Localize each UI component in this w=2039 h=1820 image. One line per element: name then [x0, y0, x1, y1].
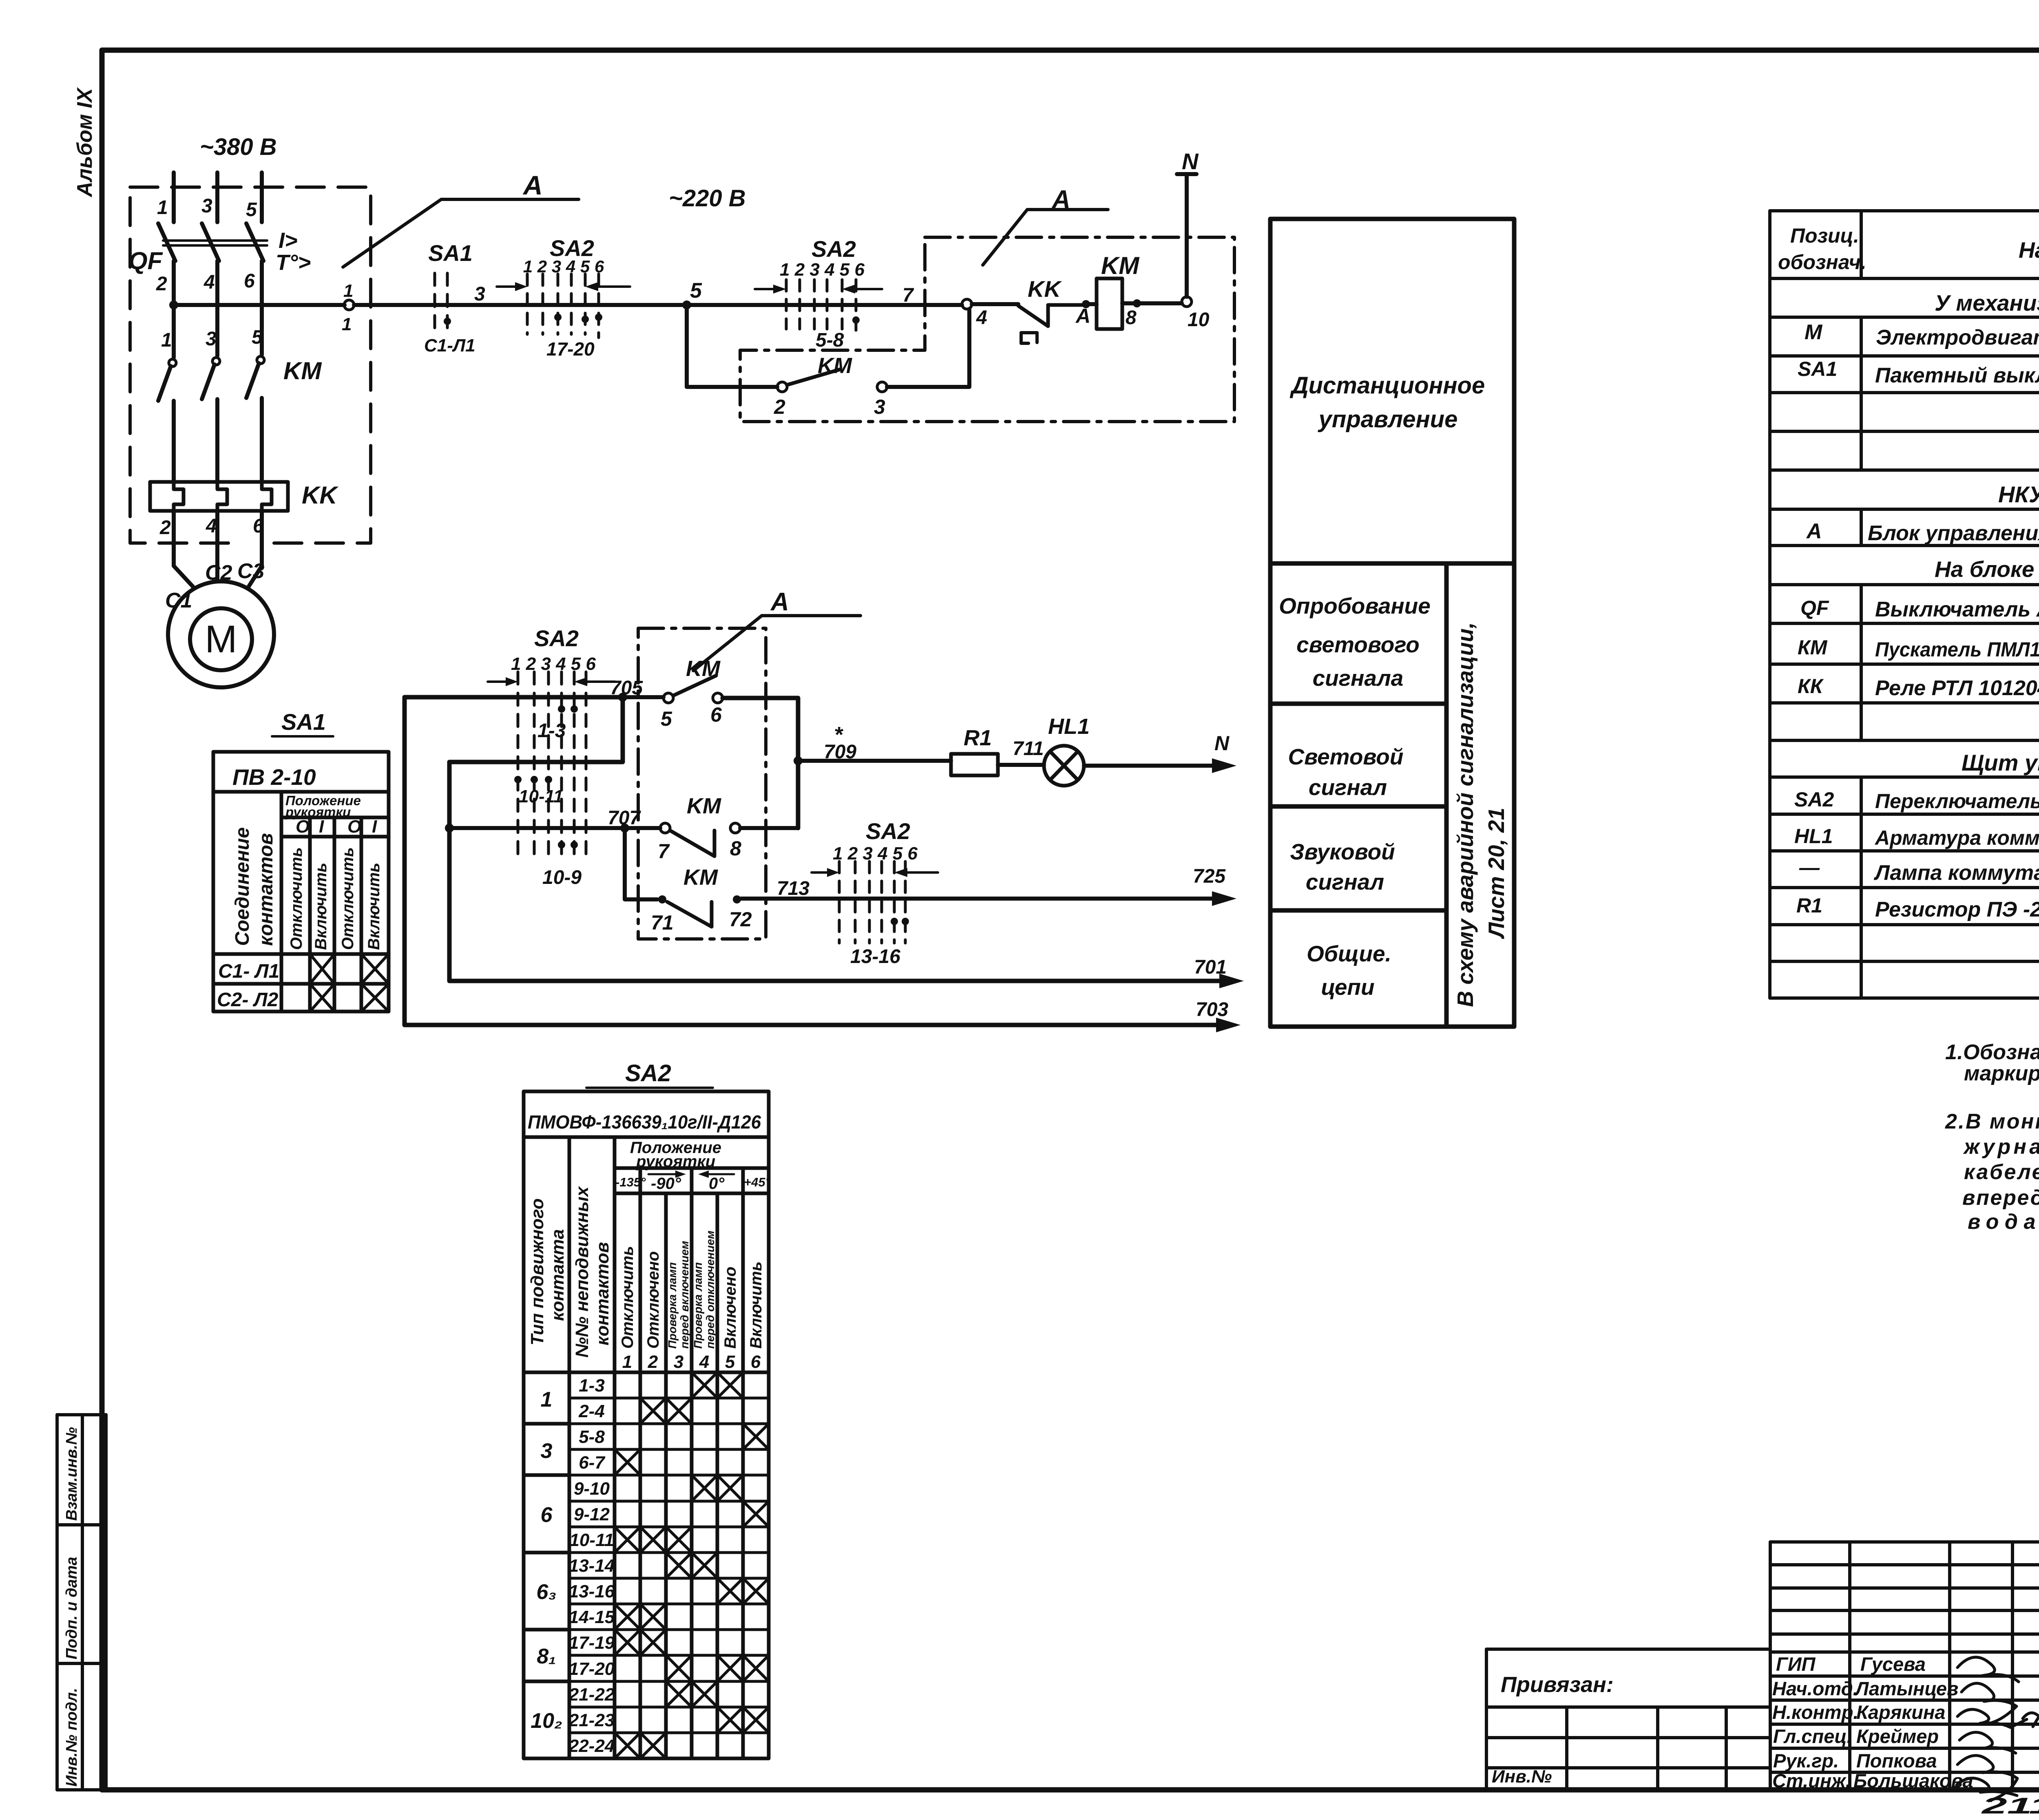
moving contact dots lines 4,5 lower [558, 841, 565, 848]
svg-text:Наименование: Наименование [2019, 237, 2039, 263]
switch SA2 bank (17-20) on feed line [527, 274, 599, 338]
wire KM aux branch down [687, 305, 777, 387]
wire pole3 QF to KM [260, 261, 264, 355]
svg-text:5: 5 [661, 707, 672, 730]
svg-text:4: 4 [203, 272, 215, 293]
svg-text:Проверка ламп: Проверка ламп [692, 1262, 704, 1349]
svg-text:1-3: 1-3 [579, 1376, 605, 1396]
svg-text:T°>: T°> [276, 250, 311, 275]
pointer line to block A (starter) [983, 210, 1108, 265]
svg-text:3: 3 [874, 395, 885, 418]
svg-text:SA2: SA2 [534, 625, 579, 651]
svg-text:N: N [1214, 732, 1230, 755]
svg-text:Электродвигатель 4А100S2: Электродвигатель 4А100S2 [1876, 326, 2039, 349]
wire N riser [1177, 174, 1196, 297]
moving contact dots lines 4,5 upper [558, 705, 565, 713]
svg-text:10: 10 [1188, 309, 1210, 331]
motor M inner circle [190, 608, 252, 670]
svg-text:SA2: SA2 [625, 1060, 671, 1087]
svg-text:HL1: HL1 [1794, 825, 1833, 848]
title block signature table [1770, 1542, 2039, 1790]
svg-text:6: 6 [244, 270, 255, 292]
table SA1 X marks [310, 954, 389, 1012]
wire supply phase L2 [215, 172, 219, 222]
svg-text:C2- Л2: C2- Л2 [217, 989, 279, 1011]
svg-text:контакта: контакта [548, 1229, 568, 1321]
wire 703 arrow [1216, 1018, 1241, 1032]
wire SA1 to SA2 [473, 303, 687, 307]
svg-text:Инв.№ подл.: Инв.№ подл. [63, 1688, 80, 1787]
svg-text:сигнал: сигнал [1306, 869, 1384, 895]
svg-text:1 2 3 4 5 6: 1 2 3 4 5 6 [511, 654, 596, 674]
svg-text:Инв.№: Инв.№ [1492, 1767, 1552, 1787]
svg-text:Попкова: Попкова [1856, 1750, 1937, 1771]
svg-text:Отключить: Отключить [287, 847, 305, 950]
svg-text:5: 5 [690, 279, 702, 303]
svg-text:КК: КК [1798, 675, 1824, 698]
terminal 4 of block A [962, 299, 972, 309]
svg-text:1: 1 [161, 329, 172, 351]
dashed enclosure box A (starter unit) [740, 237, 1234, 422]
wire KK to motor C1 [174, 511, 195, 588]
svg-text:3: 3 [474, 283, 485, 305]
svg-text:управление: управление [1318, 406, 1458, 433]
svg-text:НКУ-щит 5Щ: НКУ-щит 5Щ [1998, 482, 2039, 507]
node 5 junction [682, 300, 691, 309]
contact KM 7-8 terminal 8 [730, 823, 740, 833]
svg-text:13-14: 13-14 [569, 1556, 615, 1576]
svg-text:В схему аварийной сигнализ: В схему аварийной сигнализации, [1453, 622, 1478, 1007]
svg-text:SA2: SA2 [866, 818, 910, 844]
svg-text:светового: светового [1296, 632, 1420, 657]
breaker QF pole 2 blade [202, 223, 219, 261]
svg-text:Щит управления: Щит управления [1962, 750, 2039, 775]
svg-text:цепи: цепи [1321, 974, 1374, 1000]
svg-text:—: — [1799, 856, 1820, 879]
svg-text:8: 8 [730, 837, 741, 860]
wire R1 to HL1 [998, 763, 1044, 767]
svg-text:707: 707 [608, 807, 641, 829]
wire 705 to KM contact 5-6 [623, 695, 663, 699]
svg-text:+45°: +45° [744, 1175, 771, 1189]
svg-text:10₂: 10₂ [531, 1709, 562, 1733]
svg-text:сигнал: сигнал [1309, 775, 1387, 800]
svg-text:4: 4 [976, 307, 987, 329]
svg-text:ГИП: ГИП [1776, 1653, 1816, 1675]
breaker QF pole 3 blade [246, 223, 263, 261]
contact KM 71-72 blade [667, 902, 712, 927]
svg-text:Пускатель ПМЛ110004Б с приста: Пускатель ПМЛ110004Б с приставкой ПКЛ220… [1875, 638, 2039, 661]
svg-text:O: O [347, 817, 361, 837]
svg-text:обознач.: обознач. [1778, 251, 1867, 274]
svg-text:3: 3 [674, 1352, 683, 1372]
svg-text:13-16: 13-16 [569, 1581, 615, 1601]
svg-text:Подп. и дата: Подп. и дата [63, 1557, 80, 1659]
svg-text:контактов: контактов [255, 833, 277, 946]
switch SA2 bank (17-20) dashed lines [786, 280, 856, 334]
svg-text:Латынцев: Латынцев [1854, 1678, 1958, 1699]
svg-text:1 2 3 4 5 6: 1 2 3 4 5 6 [833, 844, 918, 864]
svg-text:Взам.инв.№: Взам.инв.№ [63, 1427, 80, 1521]
svg-text:6-7: 6-7 [579, 1453, 606, 1473]
svg-text:5-8: 5-8 [816, 329, 844, 351]
svg-text:перед включением: перед включением [678, 1241, 691, 1349]
svg-text:-135°: -135° [615, 1175, 646, 1189]
svg-text:4: 4 [699, 1352, 709, 1372]
switch SA2 bank (1-3/10-11/10-9) dashed lines [518, 672, 586, 861]
relay KK thermal symbol [1021, 333, 1037, 343]
svg-text:1: 1 [343, 281, 353, 301]
svg-text:I: I [372, 817, 377, 837]
switch SA2 bank (13-16) dashed lines [839, 861, 905, 943]
contact KM 71-72 terminal 72 [733, 895, 741, 903]
svg-text:2.В монтажных схемах щито: 2.В монтажных схемах щитов, в кабельном [1945, 1110, 2039, 1133]
dashed enclosure box A (middle contacts) [638, 628, 766, 939]
svg-text:впереди проставляется но: впереди проставляется номер электропри- [1962, 1186, 2039, 1210]
table SA2 row lines [569, 1398, 769, 1733]
svg-text:Ст.инж.: Ст.инж. [1772, 1770, 1851, 1791]
svg-text:6: 6 [541, 1503, 553, 1527]
svg-text:R1: R1 [964, 726, 992, 750]
svg-text:22-24: 22-24 [568, 1736, 615, 1756]
svg-text:Отключить: Отключить [339, 847, 357, 950]
svg-text:SA1: SA1 [281, 709, 326, 735]
svg-text:Резистор ПЭ -25: Резистор ПЭ -25 [1875, 898, 2039, 921]
svg-text:Соединение: Соединение [232, 827, 253, 946]
contact KM 71-72 terminal 71 [658, 895, 666, 903]
moving contact dots bank4 lines 5,6 [891, 918, 898, 925]
svg-text:маркировке зажимов.: маркировке зажимов. [1964, 1062, 2039, 1085]
svg-text:Отключено: Отключено [644, 1251, 662, 1349]
svg-text:4: 4 [206, 515, 217, 537]
position arrows SA2 bank [755, 288, 775, 290]
contact KM aux terminal 3 [877, 382, 887, 392]
svg-text:Нач.отд.: Нач.отд. [1772, 1678, 1858, 1699]
svg-text:QF: QF [128, 247, 163, 274]
svg-text:17-20: 17-20 [546, 338, 595, 360]
svg-text:C1-Л1: C1-Л1 [424, 336, 475, 356]
svg-text:Гл.спец.: Гл.спец. [1773, 1725, 1852, 1747]
svg-text:KM: KM [683, 865, 718, 890]
wire pole1 QF to KM [172, 261, 176, 358]
thermal relay KK heater element pole3 [262, 482, 272, 511]
svg-text:KM: KM [1101, 252, 1140, 279]
svg-text:6₃: 6₃ [536, 1580, 556, 1604]
wire contact 6 to node 709 [723, 698, 798, 828]
svg-text:Лампа коммутаторная КМ: Лампа коммутаторная КМ60- 55 [1873, 861, 2039, 885]
relay KK NC contact blade [1018, 305, 1086, 326]
resistor R1 [951, 754, 998, 775]
svg-text:контактов: контактов [593, 1242, 613, 1345]
svg-text:KK: KK [302, 482, 338, 509]
svg-text:725: 725 [1193, 866, 1226, 887]
contact KM 7-8 terminal 7 [660, 823, 670, 833]
table SA2 X marks [615, 1372, 769, 1758]
svg-text:10-11: 10-11 [519, 786, 563, 806]
wire KK to motor C3 [248, 511, 262, 588]
svg-text:8₁: 8₁ [537, 1645, 556, 1668]
node 707 junction [620, 824, 629, 833]
svg-text:Н.контр.: Н.контр. [1772, 1701, 1858, 1723]
svg-text:1: 1 [342, 314, 352, 334]
svg-text:Дистанционное: Дистанционное [1289, 372, 1485, 399]
wire 709 to R1 [798, 759, 951, 763]
svg-text:KK: KK [1028, 276, 1062, 302]
wire 705 jog to inner trunk [449, 697, 1227, 981]
svg-text:рукоятки: рукоятки [285, 804, 351, 819]
svg-text:1: 1 [622, 1352, 632, 1372]
node 8 [1133, 299, 1141, 307]
svg-text:№№ неподвижных: №№ неподвижных [572, 1186, 592, 1358]
lamp HL1 [1044, 746, 1084, 786]
breaker QF trip crossbar [163, 241, 267, 245]
node tap control feed on pole 1 [169, 300, 178, 309]
contact KM 5-6 terminal 5 [663, 693, 673, 703]
svg-text:Привязан:: Привязан: [1501, 1672, 1614, 1697]
svg-text:Пакетный выключатель ПВ2-10/: Пакетный выключатель ПВ2-10/У356 [1875, 364, 2039, 387]
svg-text:13-16: 13-16 [850, 946, 900, 967]
svg-text:2-4: 2-4 [578, 1401, 605, 1421]
contactor KM main contact pole3 [257, 356, 264, 364]
node A [1082, 300, 1090, 308]
contact KM 5-6 terminal 6 [713, 693, 723, 703]
terminal 1 of block A [344, 300, 354, 310]
svg-text:17-20: 17-20 [569, 1659, 615, 1679]
svg-text:A: A [522, 170, 543, 200]
svg-text:перед отключением: перед отключением [704, 1230, 717, 1349]
svg-text:KM: KM [818, 353, 852, 378]
left margin stamp boxes [57, 1415, 106, 1790]
svg-text:71: 71 [651, 911, 674, 934]
svg-text:0°: 0° [709, 1175, 725, 1193]
svg-text:1.Обозначение „0" соответств: 1.Обозначение „0" соответствует заводско… [1945, 1040, 2039, 1064]
wire contact 8 to node 709 riser [740, 826, 798, 830]
svg-text:703: 703 [1196, 999, 1228, 1020]
moving contact dot SA2 bank line6 [852, 316, 860, 324]
svg-text:5: 5 [252, 327, 263, 348]
svg-text:Включить: Включить [365, 863, 383, 950]
svg-text:10-11: 10-11 [569, 1530, 614, 1550]
svg-text:N: N [1182, 148, 1199, 174]
svg-text:14-15: 14-15 [569, 1607, 615, 1627]
table SA1 grid [213, 752, 389, 1012]
node 705 junction [618, 693, 627, 702]
svg-text:1: 1 [541, 1388, 553, 1411]
svg-text:21192-12: 21192-12 [1981, 1793, 2039, 1818]
svg-text:Проверка ламп: Проверка ламп [666, 1262, 679, 1349]
svg-text:SA1: SA1 [428, 240, 473, 266]
wire KK to motor C2 [215, 511, 219, 581]
svg-text:2: 2 [774, 395, 785, 418]
node 709 [794, 756, 803, 765]
svg-text:1: 1 [157, 197, 168, 219]
svg-text:21-22: 21-22 [568, 1685, 615, 1705]
pointer line to block A (middle) [693, 616, 860, 671]
svg-text:1-3: 1-3 [537, 720, 566, 742]
wire outer trunk (703 loop) [405, 697, 1223, 1025]
svg-text:рукоятки: рукоятки [636, 1153, 715, 1171]
svg-text:На блоке управления: На блоке управления [1935, 557, 2039, 582]
svg-text:Большакова: Большакова [1853, 1770, 1973, 1791]
svg-text:Карякина: Карякина [1856, 1701, 1945, 1723]
svg-text:C1- Л1: C1- Л1 [218, 961, 279, 982]
wire supply phase L3 [260, 172, 264, 222]
position arrows SA2 bank4 [812, 871, 828, 874]
contact KM aux blade [787, 369, 840, 385]
svg-text:709: 709 [824, 741, 856, 763]
svg-text:3: 3 [201, 195, 212, 217]
svg-text:Позиц.: Позиц. [1790, 224, 1859, 247]
svg-text:21-23: 21-23 [568, 1710, 615, 1730]
svg-text:Световой: Световой [1288, 744, 1404, 769]
position arrows SA2 bank3 [488, 680, 506, 683]
svg-text:SA1: SA1 [1798, 358, 1837, 380]
motor M outer circle [168, 581, 274, 687]
svg-text:M: M [205, 618, 237, 661]
wire KM aux to node 4 [887, 309, 969, 387]
svg-text:Реле РТЛ 101204: Реле РТЛ 101204 [1875, 676, 2039, 700]
svg-text:Лист 20, 21: Лист 20, 21 [1484, 808, 1509, 939]
svg-text:КМ: КМ [1798, 636, 1828, 659]
svg-text:KM: KM [283, 357, 322, 384]
thermal relay KK heater element pole2 [217, 482, 227, 511]
svg-text:R1: R1 [1796, 894, 1822, 917]
svg-text:72: 72 [729, 908, 752, 931]
svg-text:Включено: Включено [721, 1267, 739, 1349]
svg-text:А: А [1806, 519, 1822, 543]
svg-text:Рук.гр.: Рук.гр. [1773, 1750, 1839, 1771]
pointer line to block A (power) [343, 199, 579, 267]
contact KM 7-8 blade [670, 830, 714, 856]
contactor KM main contact pole1 [169, 359, 176, 367]
title block attachment table [1486, 1649, 1770, 1790]
contact KM aux terminal 2 [777, 382, 787, 392]
svg-text:C3: C3 [237, 559, 265, 583]
svg-text:2: 2 [159, 517, 171, 539]
svg-text:5: 5 [725, 1352, 735, 1372]
wire terminal1 to SA1 [354, 303, 473, 307]
terminal 10 of block A [1182, 297, 1192, 307]
svg-text:Переключатель ПМОВФ -136639₁1: Переключатель ПМОВФ -136639₁10₂/II-Д126 [1875, 790, 2039, 813]
svg-text:KM: KM [686, 656, 721, 681]
svg-text:711: 711 [1013, 738, 1044, 760]
svg-text:~380 B: ~380 B [200, 134, 277, 160]
svg-text:O: O [296, 817, 310, 837]
svg-text:Креймер: Креймер [1856, 1725, 1939, 1747]
contactor KM main contact pole2 [212, 358, 220, 365]
wire HL1 to N arrow [1084, 764, 1219, 768]
svg-text:A: A [1051, 186, 1070, 214]
svg-text:6: 6 [751, 1352, 761, 1372]
wire pole2 QF to KM [215, 261, 219, 356]
svg-text:1 2 3 4 5 6: 1 2 3 4 5 6 [780, 260, 865, 280]
svg-text:Выключатель АЕ2016- 10НУЗ: Выключатель АЕ2016- 10НУЗ [1875, 598, 2039, 621]
svg-text:SA2: SA2 [1794, 788, 1834, 811]
svg-text:17-19: 17-19 [569, 1633, 615, 1653]
wire 713 to 725 arrow [741, 897, 1219, 901]
svg-text:M: M [1805, 320, 1823, 344]
svg-text:ПВ 2-10: ПВ 2-10 [232, 764, 316, 790]
svg-text:Включить: Включить [747, 1261, 765, 1349]
position arrows SA2 feed bank [497, 285, 516, 288]
wire 707 from inner trunk [449, 826, 660, 830]
table SA2 grid outer [524, 1091, 769, 1758]
svg-text:6: 6 [710, 703, 722, 726]
svg-text:2: 2 [648, 1352, 658, 1372]
svg-text:SA2: SA2 [550, 235, 594, 261]
svg-text:QF: QF [1800, 596, 1829, 619]
svg-text:KM: KM [687, 794, 721, 818]
signature squiggles [1957, 1657, 2039, 1801]
svg-text:3: 3 [206, 328, 217, 350]
svg-text:9-12: 9-12 [574, 1504, 610, 1524]
wire node8 to terminal 10 [1137, 301, 1182, 305]
svg-text:5-8: 5-8 [579, 1427, 605, 1447]
parts list table grid [1770, 211, 2039, 998]
svg-text:Общие.: Общие. [1307, 941, 1391, 966]
svg-text:Арматура коммутарной ла: Арматура коммутарной лампы АСКМ-3 [1874, 826, 2039, 849]
svg-text:9-10: 9-10 [574, 1479, 610, 1499]
wire supply phase L1 [172, 172, 176, 222]
moving contact dots feed bank lines 3,5,6 [554, 314, 562, 321]
svg-text:Блок управления БОУ5130 -2: Блок управления БОУ5130 -2974УХЛ4Б [1868, 521, 2039, 545]
svg-text:У механизма: У механизма [1935, 290, 2039, 316]
moving contact dots lines 1,2,3 middle [514, 776, 522, 783]
svg-text:I: I [319, 817, 324, 837]
wire SA2 to terminal 4 [687, 303, 962, 307]
svg-text:HL1: HL1 [1048, 714, 1090, 739]
svg-text:8: 8 [1126, 307, 1137, 329]
svg-text:701: 701 [1194, 956, 1227, 978]
svg-text:A: A [1075, 305, 1090, 327]
svg-text:713: 713 [777, 878, 809, 899]
svg-text:~220 B: ~220 B [669, 185, 746, 212]
svg-text:5: 5 [246, 199, 257, 221]
svg-text:Звуковой: Звуковой [1290, 839, 1395, 864]
svg-text:7: 7 [658, 840, 670, 863]
svg-text:A: A [770, 588, 789, 616]
svg-text:I>: I> [279, 228, 298, 253]
wire control feed to terminal 1 [174, 303, 345, 307]
thermal relay KK heater box [150, 482, 288, 511]
thermal relay KK heater element pole1 [174, 482, 184, 511]
switch SA1 contact [433, 273, 436, 334]
svg-text:2: 2 [156, 273, 167, 295]
signal destination box [1270, 219, 1514, 1027]
svg-text:3: 3 [541, 1439, 553, 1463]
svg-text:Альбом IX: Альбом IX [73, 87, 97, 198]
breaker QF pole 1 blade [158, 223, 175, 261]
svg-text:SA2: SA2 [812, 236, 856, 262]
svg-text:Включить: Включить [312, 863, 330, 950]
svg-text:Опробование: Опробование [1279, 593, 1431, 618]
svg-text:Гусева: Гусева [1860, 1653, 1926, 1675]
coil KM [1097, 278, 1122, 329]
svg-text:Тип подвижного: Тип подвижного [527, 1198, 547, 1345]
wire terminal 4 to KK contact [972, 302, 1018, 306]
svg-text:Отключить: Отключить [619, 1246, 637, 1349]
node 707 tee on trunk [445, 824, 454, 833]
svg-text:10-9: 10-9 [542, 867, 582, 888]
wire 701 arrow [1219, 974, 1244, 988]
dashed enclosure box A (power unit) [130, 187, 371, 543]
wire 713 drop from 707 [625, 828, 657, 899]
contact KM 5-6 blade [673, 676, 716, 696]
svg-text:сигнала: сигнала [1313, 665, 1404, 691]
svg-text:ПМОВФ-136639₁10г/II-Д126: ПМОВФ-136639₁10г/II-Д126 [528, 1111, 761, 1133]
